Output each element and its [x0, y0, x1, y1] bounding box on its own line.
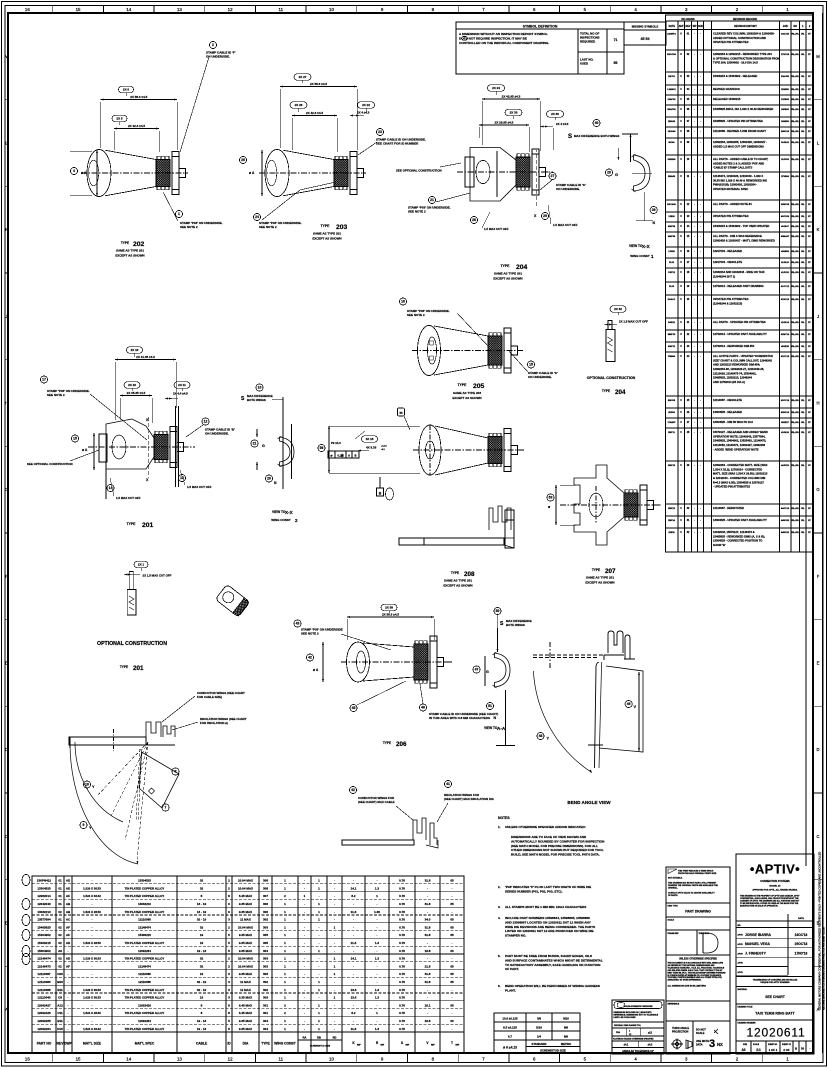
terminal type 207: [560, 465, 662, 545]
svg-text:4: 4: [73, 169, 75, 173]
svg-text:•APTIV•: •APTIV•: [750, 862, 800, 877]
svg-text:RB: RB: [317, 1036, 321, 1040]
svg-text:16: 16: [25, 7, 30, 12]
svg-text:2X 58: 2X 58: [385, 606, 393, 610]
view X-X label 1: [629, 244, 654, 259]
revision row 13: [666, 214, 814, 222]
svg-text:1 OF 1: 1 OF 1: [769, 1048, 778, 1052]
svg-text:MAT'L SIZE (WAS 1.524 X 26.50): MAT'L SIZE (WAS 1.524 X 26.50); 12032213: [713, 472, 768, 476]
zone letters left: [5, 54, 9, 1012]
scale box: [668, 919, 675, 922]
ring view feature control frame: [328, 451, 359, 458]
svg-text:71: 71: [614, 38, 618, 42]
revision row 31: [666, 518, 814, 528]
svg-text:19 - 13: 19 - 13: [197, 1027, 207, 1031]
type 205 balloon 15 stamp cable id: [509, 351, 558, 379]
svg-text:-: -: [377, 925, 378, 929]
parts table row 230PN412: [37, 879, 454, 883]
svg-text:36.53 INS 1.029 X 46.49 & REWO: 36.53 INS 1.029 X 46.49 & REWORKED INS: [713, 178, 767, 182]
svg-text:307: 307: [263, 894, 268, 898]
svg-text:-: -: [304, 972, 305, 976]
svg-text:SEE NOTE 2: SEE NOTE 2: [301, 631, 319, 635]
svg-text:CONTROLLED ON THE INDIVIDUAL C: CONTROLLED ON THE INDIVIDUAL COMPONENT D…: [459, 41, 549, 45]
svg-text:44OC19: 44OC19: [781, 507, 790, 510]
svg-text:-: -: [452, 1011, 453, 1015]
svg-text:JRL;JRL: JRL;JRL: [791, 422, 800, 424]
svg-text:BBC05: BBC05: [668, 400, 676, 402]
svg-text:M: M: [5, 54, 9, 59]
svg-text:13.6: 13.6: [351, 988, 357, 992]
svg-text:JRL;JRL: JRL;JRL: [791, 204, 800, 206]
svg-text:VIEW TO: VIEW TO: [272, 510, 286, 514]
svg-text:X-X: X-X: [642, 244, 651, 249]
svg-text:TO SATISFACTORY ASSEMBLY, SAFE: TO SATISFACTORY ASSEMBLY, SAFE HANDLING …: [505, 963, 601, 967]
svg-text:1JN09: 1JN09: [668, 251, 675, 253]
revision row 2: [666, 52, 814, 72]
right border rotated text: [818, 852, 826, 1010]
terminal type 201: [88, 406, 195, 499]
svg-text:306: 306: [263, 902, 268, 906]
svg-text:0.76: 0.76: [399, 925, 405, 929]
revision row 21: [666, 320, 814, 330]
parts table row 12110049: [32, 993, 464, 1000]
parts table row 12092427: [32, 1001, 464, 1008]
svg-text:21FE08: 21FE08: [781, 99, 789, 101]
svg-text:SAME AS TYPE 203: SAME AS TYPE 203: [453, 391, 481, 395]
svg-text:31.8: 31.8: [425, 933, 431, 937]
svg-text:-: -: [353, 964, 354, 968]
svg-text:6.45 MAX: 6.45 MAX: [239, 1003, 252, 1007]
svg-text:2X 6: 2X 6: [123, 88, 130, 92]
svg-text:TIN PLATED COPPER ALLOY: TIN PLATED COPPER ALLOY: [125, 886, 165, 890]
svg-text:-: -: [304, 1003, 305, 1007]
svg-text:230PN412: 230PN412: [37, 879, 52, 883]
bend fan dashed lines: [22, 306, 826, 1054]
svg-text:B90: B90: [57, 980, 63, 984]
svg-text:32: 32: [200, 925, 204, 929]
note 1.: [498, 825, 586, 829]
svg-text:EXCEPT AS SHOWN: EXCEPT AS SHOWN: [312, 237, 341, 241]
svg-text:-: -: [304, 964, 305, 968]
revision row 22: [666, 332, 814, 342]
svg-text:12092426 & 12092427 - MAT'L DI: 12092426 & 12092427 - MAT'L DIMS REWORKE…: [713, 238, 775, 242]
svg-text:1.5 MAX CUT OFF: 1.5 MAX CUT OFF: [187, 485, 212, 489]
svg-text:1.: 1.: [498, 825, 501, 829]
parts table row 15304902: [32, 946, 464, 953]
svg-text:201: 201: [133, 665, 144, 672]
svg-text:24NO10: 24NO10: [781, 130, 790, 133]
svg-text:11.6: 11.6: [351, 941, 357, 945]
svg-text:-: -: [92, 949, 93, 953]
svg-text:REFERENCE: REFERENCE: [668, 1004, 680, 1006]
svg-text:MAP11: MAP11: [668, 345, 676, 348]
svg-text:10.04 MAX: 10.04 MAX: [238, 925, 253, 929]
svg-text:13304525 - CORRECTED POSITION: 13304525 - CORRECTED POSITION TO: [713, 539, 762, 543]
svg-text:2X 35.35 ±4.5: 2X 35.35 ±4.5: [127, 391, 146, 395]
svg-text:SEE OPTIONAL CONSTRUCTION: SEE OPTIONAL CONSTRUCTION: [396, 169, 442, 173]
svg-text:A DIMENSION WITHOUT AN INSPECT: A DIMENSION WITHOUT AN INSPECTION REPORT…: [459, 32, 548, 36]
svg-text:13304525: 13304525: [37, 886, 51, 890]
svg-text:FRAME REF: FRAME REF: [668, 932, 680, 935]
svg-text:-: -: [452, 886, 453, 890]
ring view datum B flag: [377, 477, 394, 500]
svg-text:L3MA01: L3MA01: [667, 88, 676, 91]
svg-text:65: 65: [450, 980, 454, 984]
svg-text:LISTED ON 12020611 SHT 12 ARE: LISTED ON 12020611 SHT 12 ARE PRODUCED O…: [505, 929, 594, 933]
parts table row 12962014: [32, 892, 464, 899]
note 6.: [498, 984, 600, 992]
svg-text:TIN PLATED COPPER ALLOY: TIN PLATED COPPER ALLOY: [125, 988, 165, 992]
svg-text:≥12: ≥12: [648, 1032, 653, 1035]
svg-text:49: 49: [627, 702, 631, 706]
svg-text:12110087 - REINSTATED: 12110087 - REINSTATED: [713, 506, 744, 510]
type 204 label: [493, 264, 527, 281]
svg-text:-: -: [377, 972, 378, 976]
svg-text:OF PART.: OF PART.: [505, 967, 519, 971]
svg-text:0.76: 0.76: [399, 879, 405, 883]
svg-text:TYPE: TYPE: [458, 383, 468, 387]
svg-text:305: 305: [263, 933, 268, 937]
svg-text:47: 47: [475, 668, 479, 672]
svg-text:28: 28: [472, 218, 476, 222]
svg-text:2X 42.95 ±4.3: 2X 42.95 ±4.3: [502, 94, 521, 98]
optional construction 204 stub: [604, 306, 648, 362]
part drawing box: [668, 906, 712, 914]
svg-text:26JU03: 26JU03: [781, 159, 789, 161]
svg-text:1.3: 1.3: [375, 996, 380, 1000]
frame ref box with profile: [668, 930, 719, 955]
revision row 6: [666, 107, 814, 117]
svg-text:STANDARD: STANDARD: [532, 1042, 547, 1046]
svg-text:303: 303: [263, 996, 268, 1000]
svg-text:65: 65: [450, 933, 454, 937]
svg-text:JRL;JRL: JRL;JRL: [791, 400, 800, 402]
svg-text:45 54: 45 54: [641, 37, 650, 41]
svg-text:0.76: 0.76: [399, 980, 405, 984]
svg-text:15: 15: [76, 7, 81, 12]
svg-text:HOLES-SCHEMATIC UNKNOWN: HOLES-SCHEMATIC UNKNOWN: [624, 1005, 653, 1008]
svg-text:SCREW/STUD SIZE: SCREW/STUD SIZE: [540, 1049, 566, 1053]
svg-text:R=6.3 (WAS 6.35); 13304525 & 1: R=6.3 (WAS 6.35); 13304525 & 15079127: [713, 480, 764, 484]
svg-text:12092427: 12092427: [37, 1003, 51, 1007]
type 203 label: [312, 224, 347, 241]
svg-text:G: G: [816, 487, 819, 492]
svg-text:206: 206: [396, 741, 407, 748]
ring view hole dim 4X 8.33: [355, 431, 387, 452]
svg-text:SHT: SHT: [679, 25, 684, 28]
svg-text:TRADEMARKS OF CONCERN AND INST: TRADEMARKS OF CONCERN AND INSTALLED: [753, 979, 798, 982]
svg-text:65: 65: [450, 925, 454, 929]
svg-text:ALL DIMENSIONS ARE IN MILLIMET: ALL DIMENSIONS ARE IN MILLIMETERS: [668, 985, 707, 988]
svg-text:BEND OPERATION WILL BE PERFORM: BEND OPERATION WILL BE PERFORMED AT WIRI…: [505, 984, 600, 988]
svg-text:APVD: APVD: [738, 943, 744, 946]
svg-text:02: 02: [58, 933, 62, 937]
svg-text:AND 13598867 LOCATED ON 120206: AND 13598867 LOCATED ON 12020611 SHT 12 …: [505, 920, 592, 924]
svg-text:TIN PLATED COPPER ALLOY: TIN PLATED COPPER ALLOY: [125, 941, 165, 945]
revision row 15: [666, 234, 814, 247]
svg-text:19 - 13: 19 - 13: [197, 949, 207, 953]
material see chart: [736, 988, 814, 1004]
svg-text:0.76: 0.76: [399, 894, 405, 898]
view A-A label: [484, 726, 506, 731]
svg-text:SEE NOTE 2: SEE NOTE 2: [180, 225, 198, 229]
svg-text:12110026, 12146473-74, 1530490: 12110026, 12146473-74, 15304902,: [713, 371, 757, 375]
svg-text:6.45 MAX: 6.45 MAX: [239, 1011, 252, 1015]
svg-text:2X 16: 2X 16: [128, 383, 136, 387]
svg-text:‘CABLE ID’ STAMP CALLOUTS: ‘CABLE ID’ STAMP CALLOUTS: [713, 166, 753, 170]
svg-text:-: -: [353, 918, 354, 922]
svg-text:31.8: 31.8: [425, 980, 431, 984]
svg-text:-: -: [452, 957, 453, 961]
svg-text:12110087: 12110087: [37, 972, 51, 976]
revision row 24: [666, 354, 814, 396]
svg-text:-: -: [68, 1003, 69, 1007]
revision row 17: [666, 260, 814, 268]
svg-text:65: 65: [450, 902, 454, 906]
aptiv title block: [736, 854, 814, 1054]
svg-text:15JA04: 15JA04: [668, 130, 676, 133]
svg-text:DECIMAL DIMS RANGE TOL: DECIMAL DIMS RANGE TOL: [614, 1024, 642, 1027]
svg-text:13032213: 13032213: [37, 910, 51, 914]
svg-text:40SE09: 40SE09: [781, 250, 790, 253]
svg-text:A-A: A-A: [497, 726, 506, 731]
svg-text:17: 17: [42, 378, 46, 382]
svg-text:44JU19: 44JU19: [781, 464, 789, 467]
svg-text:ON UNDERSIDE.: ON UNDERSIDE.: [206, 54, 230, 58]
svg-text:REVISION RECORD: REVISION RECORD: [733, 17, 757, 21]
svg-text:SCALE: SCALE: [753, 1043, 760, 1046]
svg-text:TIN PLATED COPPER ALLOY: TIN PLATED COPPER ALLOY: [125, 1011, 165, 1015]
svg-text:26: 26: [241, 158, 245, 162]
svg-text:42SE15: 42SE15: [781, 345, 790, 348]
svg-text:0.76: 0.76: [399, 941, 405, 945]
svg-text:32: 32: [200, 886, 204, 890]
svg-text:205: 205: [473, 383, 485, 390]
svg-text:SHEET OF: SHEET OF: [782, 1044, 792, 1046]
svg-text:-: -: [68, 996, 69, 1000]
svg-text:02: 02: [58, 910, 62, 914]
svg-text:2X 42.3 ±4.5: 2X 42.3 ±4.5: [128, 124, 145, 128]
svg-text:9.35 MAX: 9.35 MAX: [239, 996, 252, 1000]
svg-text:ø A: ø A: [313, 668, 319, 672]
wing detail part: [342, 818, 438, 848]
svg-text:0.76: 0.76: [399, 1003, 405, 1007]
svg-text:-: -: [304, 918, 305, 922]
optional construction 204 label: [587, 376, 636, 396]
svg-text:H: H: [5, 401, 8, 406]
svg-text:5.: 5.: [498, 954, 501, 958]
svg-text:C90: C90: [57, 972, 63, 976]
svg-text:G: G: [5, 487, 8, 492]
svg-text:ADDED OPTIONAL CONSTRUCTION AN: ADDED OPTIONAL CONSTRUCTION AND: [713, 36, 766, 40]
type 207 balloon 53 dia A: [547, 485, 576, 525]
svg-text:NX: NX: [717, 1042, 723, 1047]
svg-text:SEE NOTE 2: SEE NOTE 2: [408, 209, 426, 213]
svg-text:-: -: [92, 879, 93, 883]
svg-text:TYPE: TYPE: [383, 741, 391, 745]
unless otherwise specified box: [668, 958, 727, 988]
svg-text:ALL PARTS - UPDATED PIN ATTRIB: ALL PARTS - UPDATED PIN ATTRIBUTES: [713, 320, 766, 324]
svg-text:NO: NO: [793, 25, 797, 28]
svg-text:MAT'L SPEC: MAT'L SPEC: [135, 1042, 155, 1046]
svg-text:19: 19: [258, 386, 262, 390]
svg-text:CONNECTION SYSTEMS: CONNECTION SYSTEMS: [760, 880, 790, 883]
svg-text:12762014 - REWORKED DIM #54: 12762014 - REWORKED DIM #54: [713, 344, 755, 348]
svg-text:PART MUST BE FREE FROM BURRS,: PART MUST BE FREE FROM BURRS, SHARP EDGE…: [505, 954, 592, 958]
svg-text:WING CONST: WING CONST: [271, 518, 291, 522]
svg-text:12092264: 12092264: [37, 1027, 51, 1031]
svg-text:2X 33: 2X 33: [510, 111, 518, 115]
svg-text:ON UNDERSIDE.: ON UNDERSIDE.: [528, 375, 552, 379]
svg-text:15406215 & 15404902 - RELEASED: 15406215 & 15404902 - RELEASED: [713, 74, 757, 78]
svg-text:15406215: 15406215: [138, 933, 151, 937]
svg-text:11.6: 11.6: [351, 1027, 357, 1031]
svg-text:-: -: [353, 902, 354, 906]
svg-text:201: 201: [142, 522, 154, 529]
svg-text:16OC'18: 16OC'18: [795, 933, 808, 937]
svg-text:32: 32: [200, 879, 204, 883]
parts table row 12110088: [32, 985, 464, 992]
svg-text:29MY05: 29MY05: [781, 204, 790, 206]
bend angle view label: [567, 800, 611, 805]
svg-text:2X 27: 2X 27: [299, 75, 307, 79]
type 203 balloon 26 dia A: [239, 150, 263, 196]
revision row 4: [666, 87, 814, 95]
svg-text:01: 01: [58, 886, 62, 890]
svg-text:-: -: [353, 949, 354, 953]
svg-text:PRODUCES HALF ORIGINAL PRINTS: PRODUCES HALF ORIGINAL PRINTS SIZE: [678, 872, 717, 875]
svg-text:AND SURFACE CONTAMINATES WHICH: AND SURFACE CONTAMINATES WHICH MIGHT BE …: [505, 958, 603, 962]
svg-text:2.: 2.: [498, 885, 501, 889]
svg-text:56: 56: [320, 446, 324, 450]
svg-text:A12: A12: [57, 1003, 63, 1007]
svg-text:7: 7: [165, 806, 167, 810]
svg-text:1.524 X 28.50: 1.524 X 28.50: [83, 941, 101, 945]
svg-text:K: K: [817, 227, 820, 232]
view X-X label 2: [271, 510, 298, 523]
svg-text:B11: B11: [57, 1019, 63, 1023]
svg-text:303: 303: [263, 957, 268, 961]
svg-text:12: 12: [228, 1057, 233, 1062]
svg-text:EXCEPT AS SHOWN: EXCEPT AS SHOWN: [493, 277, 522, 281]
svg-text:2X 26.95 ±4.5: 2X 26.95 ±4.5: [495, 120, 514, 124]
svg-text:-: -: [68, 1027, 69, 1031]
svg-text:32 - 19: 32 - 19: [197, 988, 207, 992]
svg-text:JRL;JRL: JRL;JRL: [791, 508, 800, 510]
insulation wings callout: [172, 717, 247, 730]
svg-text:EXCEPT AS SHOWN: EXCEPT AS SHOWN: [443, 584, 472, 588]
svg-text:-: -: [304, 980, 305, 984]
svg-text:-: -: [304, 957, 305, 961]
svg-text:WING CONST: WING CONST: [274, 1042, 295, 1046]
svg-text:JRL;JRL: JRL;JRL: [791, 34, 800, 36]
svg-text:JRL;JRL: JRL;JRL: [791, 412, 800, 414]
view A-A: [473, 607, 532, 746]
type 204 see optional construction callout: [396, 163, 461, 173]
svg-text:-: -: [68, 1011, 69, 1015]
view X-X wing const 1: [568, 119, 657, 225]
svg-text:65: 65: [450, 879, 454, 883]
svg-text:2MA03: 2MA03: [668, 120, 676, 123]
svg-text:BEND ANGLE VIEW: BEND ANGLE VIEW: [567, 800, 611, 805]
svg-text:G: G: [262, 444, 265, 448]
svg-text:23SE06: 23SE06: [781, 89, 790, 91]
svg-text:39: 39: [652, 208, 656, 212]
svg-text:13.6: 13.6: [351, 996, 357, 1000]
svg-text:(SEE CHART) MAX INSULATION DIA: (SEE CHART) MAX INSULATION DIA: [444, 797, 495, 801]
svg-text:-: -: [304, 1019, 305, 1023]
svg-text:WP: WP: [693, 25, 697, 28]
svg-text:-: -: [92, 925, 93, 929]
svg-text:SYMBOL DEFINITION: SYMBOL DEFINITION: [523, 25, 558, 29]
svg-text:D: D: [5, 747, 8, 752]
right margin lines: [806, 550, 813, 866]
svg-text:31.8: 31.8: [425, 925, 431, 929]
svg-text:D: D: [816, 747, 819, 752]
type 203 balloon 24 stamp p03: [253, 182, 336, 229]
svg-text:2X 42.3 ±4.5: 2X 42.3 ±4.5: [306, 111, 323, 115]
svg-text:SEE NOTE 2: SEE NOTE 2: [259, 225, 277, 229]
svg-text:9.35 MAX: 9.35 MAX: [239, 972, 252, 976]
svg-text:0.76: 0.76: [399, 949, 405, 953]
type 202 balloon 2 stamp cable id: [180, 41, 236, 152]
svg-text:-: -: [304, 1011, 305, 1015]
svg-text:42OC15: 42OC15: [781, 355, 790, 358]
svg-text:RA: RA: [303, 1036, 307, 1040]
type 201 balloon 17 stamp p03: [40, 376, 147, 440]
type 201 dimension 2X 35.35: [120, 382, 152, 423]
svg-text:3: 3: [709, 1038, 715, 1050]
svg-text:B3AP03: B3AP03: [667, 108, 676, 111]
svg-text:MO04: MO04: [669, 141, 676, 144]
type 201 dimension 2X 4.4: [165, 382, 190, 400]
svg-text:65: 65: [450, 964, 454, 968]
svg-text:AND 12032213 REWORKED DIM #54;: AND 12032213 REWORKED DIM #54;: [713, 363, 760, 367]
type 207 label: [585, 568, 616, 585]
svg-text:204: 204: [516, 264, 528, 271]
screw stud size table: [494, 1013, 580, 1053]
svg-text:-: -: [92, 972, 93, 976]
type 202 dimension 2X 58.3: [101, 86, 178, 150]
svg-text:6.7: 6.7: [508, 1034, 512, 1038]
type 202 label: [115, 241, 144, 258]
svg-text:TYPE: TYPE: [602, 389, 610, 393]
svg-text:308: 308: [263, 879, 268, 883]
svg-text:2 OF: 2 OF: [783, 1048, 790, 1052]
svg-text:-: -: [92, 1003, 93, 1007]
svg-text:M: M: [816, 54, 820, 59]
terminal type 204: [457, 148, 553, 202]
symbol definition box: [456, 22, 624, 74]
svg-text:APVD: APVD: [738, 952, 744, 955]
svg-text:OPERATION’ NOTE; 12042043, 135: OPERATION’ NOTE; 12042043, 13577894,: [713, 434, 766, 438]
svg-text:BUILD, SEE MATH MODEL FOR PREC: BUILD, SEE MATH MODEL FOR PRECISE TOOL P…: [511, 853, 600, 857]
missing symbols box: [624, 22, 666, 45]
svg-text:20: 20: [607, 171, 611, 175]
svg-text:1.3: 1.3: [375, 988, 380, 992]
type 201 balloon 14 cut off: [107, 478, 141, 500]
svg-text:A9: A9: [58, 949, 62, 953]
svg-text:B11: B11: [57, 988, 63, 992]
parts table: [32, 876, 464, 1053]
svg-text:16.8: 16.8: [425, 949, 431, 953]
svg-text:SEE NOTE 2: SEE NOTE 2: [47, 393, 65, 397]
parts table row 12146473: [32, 962, 464, 969]
svg-text:43OC16: 43OC16: [781, 399, 790, 402]
svg-text:40: 40: [595, 121, 599, 125]
svg-text:13304525 - RELEASED: 13304525 - RELEASED: [713, 410, 742, 414]
svg-text:-: -: [353, 1019, 354, 1023]
